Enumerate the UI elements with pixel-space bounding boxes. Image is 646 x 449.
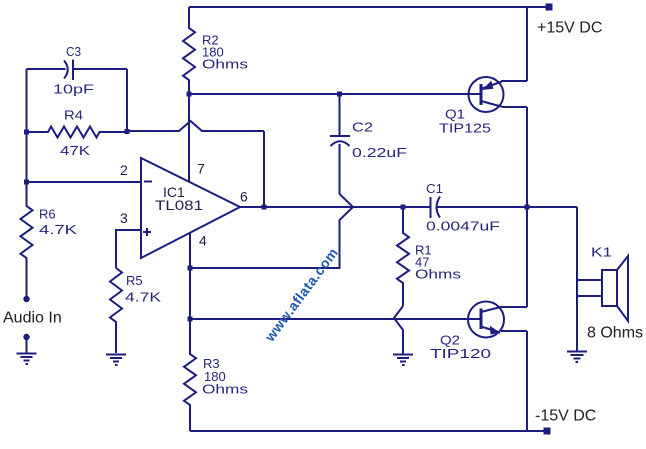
resistor R2	[183, 7, 195, 94]
wire pin4 node to C2 bottom with hop over output wire	[190, 144, 353, 268]
svg-text:R5: R5	[126, 273, 143, 288]
node R3 top	[188, 317, 193, 322]
svg-text:4.7K: 4.7K	[39, 222, 77, 237]
label R5	[125, 273, 161, 305]
+15V terminal	[546, 4, 553, 11]
svg-text:C3: C3	[66, 44, 81, 59]
svg-text:C2: C2	[352, 120, 373, 135]
wire left rail C3 to pin2 node	[26, 69, 28, 182]
capacitor C3	[27, 60, 128, 81]
label 8 Ohms	[587, 325, 643, 342]
wire R1 hop over Q2 base wire	[394, 306, 403, 354]
label R4	[60, 108, 90, 159]
wire node A to Q1 base	[340, 93, 481, 95]
wire pin 7 vertical	[188, 94, 190, 182]
wire pin 3 input	[116, 230, 141, 268]
label C3	[53, 44, 94, 97]
node pin4 junction	[188, 266, 193, 271]
resistor R5	[110, 268, 122, 353]
pin number 6	[240, 189, 248, 205]
resistor R4	[27, 127, 128, 138]
capacitor C1	[431, 197, 441, 219]
node audio-in terminal	[23, 296, 29, 302]
label R6	[39, 207, 77, 238]
label C2	[352, 120, 407, 161]
wire node to node A	[189, 93, 340, 95]
transistor Q2	[468, 302, 527, 338]
node pin2 / R6 top	[24, 180, 29, 185]
wire feedback horizontal with hop over pin7 wire	[127, 121, 264, 131]
ground R5	[106, 355, 126, 366]
wire output right of C1	[438, 206, 578, 208]
svg-text:7: 7	[197, 161, 205, 177]
label Audio In	[3, 310, 62, 327]
label R3	[202, 356, 249, 397]
svg-text:4.7K: 4.7K	[125, 290, 161, 305]
op-amp U1 (IC1 TL081)	[141, 158, 240, 258]
svg-text:Audio In: Audio In	[3, 310, 62, 327]
svg-text:Ohms: Ohms	[202, 382, 249, 397]
svg-text:6: 6	[240, 189, 248, 205]
node A (C2 top)	[337, 92, 342, 97]
node R4/C3 right	[125, 129, 130, 134]
label C1	[426, 181, 500, 234]
ground audio input	[17, 334, 37, 364]
watermark www.aflata.com	[261, 244, 341, 345]
label R1	[415, 243, 462, 282]
pin number 3	[120, 210, 128, 226]
svg-text:TIP120: TIP120	[430, 346, 491, 361]
svg-text:4: 4	[199, 233, 207, 249]
ground speaker	[567, 352, 587, 363]
svg-text:TIP125: TIP125	[439, 121, 491, 136]
svg-text:2: 2	[120, 162, 128, 178]
node R2 bottom / pin7 junction	[187, 92, 192, 97]
svg-text:R4: R4	[64, 108, 83, 123]
label Q1 TIP125	[439, 107, 491, 136]
speaker K1	[577, 207, 628, 351]
label IC1 TL081	[155, 184, 203, 213]
svg-text:TL081: TL081	[155, 197, 203, 213]
label -15V DC	[535, 408, 596, 425]
transistor Q1	[469, 77, 528, 112]
wire op-amp output	[240, 206, 430, 208]
svg-text:47K: 47K	[60, 143, 90, 158]
label Q2 TIP120	[430, 333, 491, 362]
svg-text:3: 3	[120, 210, 128, 226]
label K1	[591, 245, 612, 260]
wire Q1 collector down to output node	[526, 107, 528, 207]
-15V terminal	[544, 428, 551, 435]
wire top +15V rail	[189, 6, 546, 8]
svg-text:0.0047uF: 0.0047uF	[426, 219, 500, 234]
resistor R6	[21, 182, 33, 299]
label +15V DC	[537, 20, 602, 37]
svg-text:8 Ohms: 8 Ohms	[587, 325, 643, 342]
wire bottom -15V rail	[190, 430, 545, 432]
label R2	[202, 33, 249, 72]
pin number 7	[197, 161, 205, 177]
wire pin4 node down to R3	[189, 268, 191, 319]
capacitor C2	[330, 94, 350, 146]
pin number 2	[120, 162, 128, 178]
pin number 4	[199, 233, 207, 249]
resistor R3	[184, 319, 196, 431]
svg-text:-15V DC: -15V DC	[535, 408, 596, 425]
wire feedback vertical	[263, 131, 265, 207]
svg-text:10pF: 10pF	[53, 82, 94, 97]
svg-text:K1: K1	[591, 245, 612, 260]
wire Q2 base	[190, 318, 480, 320]
svg-text:+15V DC: +15V DC	[537, 20, 602, 37]
node output right	[525, 205, 530, 210]
svg-text:Ohms: Ohms	[415, 267, 462, 282]
wire pin 2 input	[27, 181, 142, 183]
svg-text:Q1: Q1	[445, 107, 465, 122]
svg-text:Ohms: Ohms	[202, 57, 249, 72]
node R4 left	[24, 130, 29, 135]
ground R1	[393, 355, 413, 366]
svg-text:R6: R6	[39, 207, 56, 222]
wire C3 right vertical	[126, 69, 128, 131]
node R1 top	[401, 205, 406, 210]
node feedback takeoff	[262, 205, 267, 210]
wire Q2 emitter down to -15V rail	[526, 331, 528, 431]
resistor R1	[397, 207, 409, 306]
wire pin 4 vertical	[189, 233, 191, 268]
svg-text:C1: C1	[426, 181, 443, 196]
svg-text:0.22uF: 0.22uF	[352, 145, 407, 160]
wire Q2 collector up to output node	[526, 207, 528, 307]
wire Q1 emitter up to +15V rail	[526, 7, 528, 81]
